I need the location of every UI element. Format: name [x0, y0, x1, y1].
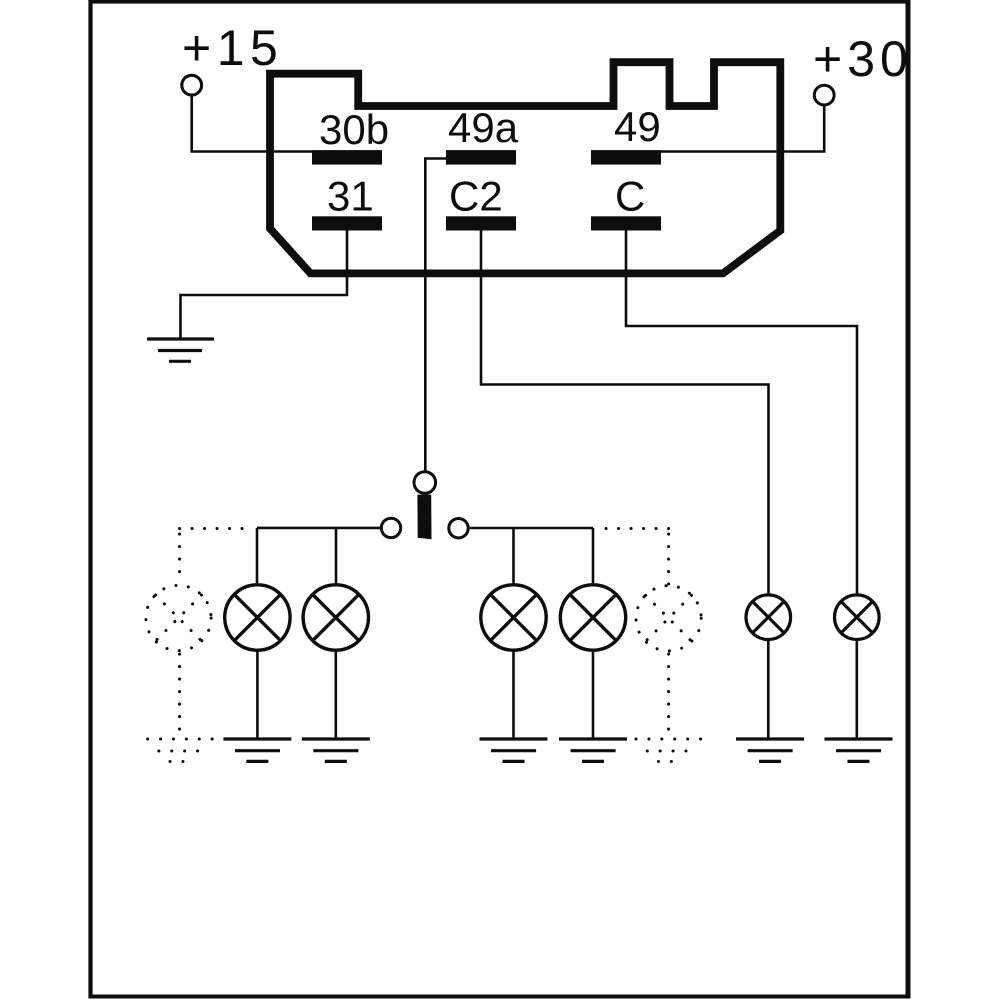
- wire lamp L5 to ground: [767, 640, 770, 739]
- ground symbol under L4: [559, 739, 627, 761]
- lamp L6: [835, 595, 880, 640]
- terminal bar 30b: [312, 150, 382, 165]
- svg-text:+15: +15: [182, 20, 283, 76]
- dotted wire optional middle lamp to ground: [667, 654, 670, 737]
- wire lamp L3 to ground: [512, 652, 515, 739]
- lamp L3: [481, 585, 546, 650]
- dotted wire optional left lamp to ground: [178, 654, 181, 737]
- svg-text:49: 49: [614, 103, 661, 150]
- wire lamp L4 to ground: [592, 652, 595, 739]
- ground symbol under L5: [736, 739, 804, 761]
- relay housing outline: [270, 62, 780, 273]
- lamp L5: [746, 595, 791, 640]
- svg-text:+30: +30: [813, 31, 913, 87]
- ground symbol under L2: [302, 739, 370, 761]
- wire lamp L6 to ground: [855, 640, 858, 739]
- ground symbol under L3: [480, 739, 548, 761]
- dotted ground under optional left lamp: [148, 739, 213, 762]
- switch contact right: [449, 519, 468, 538]
- wire 31 to chassis ground: [181, 231, 348, 338]
- dotted optional lamp left: [146, 585, 211, 650]
- wire down to lamp L4: [592, 528, 595, 584]
- svg-text:C: C: [615, 173, 645, 220]
- wire 49a to switch pivot: [425, 159, 446, 471]
- wire lamp L1 to ground: [256, 652, 259, 739]
- ground symbol 31: [147, 339, 214, 361]
- terminal bar 49a: [446, 150, 516, 165]
- switch contact left: [381, 518, 400, 537]
- switch pivot circle: [414, 472, 436, 494]
- svg-text:C2: C2: [449, 173, 503, 220]
- terminal bar 49: [591, 150, 661, 165]
- wire down to lamp L2: [335, 528, 338, 584]
- wire down to lamp L3: [512, 528, 515, 584]
- terminal circle +15: [182, 75, 202, 95]
- svg-text:49a: 49a: [448, 104, 519, 151]
- terminal circle +30: [814, 85, 834, 105]
- wire lamp L2 to ground: [334, 652, 337, 739]
- dotted optional lamp middle: [636, 586, 701, 651]
- terminal bar 31: [312, 216, 382, 230]
- lamp L2: [303, 585, 368, 650]
- wire down to lamp L1: [256, 528, 259, 584]
- svg-text:30b: 30b: [319, 106, 389, 153]
- lamp L1: [225, 585, 290, 650]
- dotted wire down to optional middle lamp: [667, 534, 670, 584]
- wire +15 to terminal 30b: [192, 95, 313, 152]
- wire C to lamp L6: [626, 231, 857, 596]
- dotted wire to optional left lamp: [180, 527, 252, 530]
- dotted wire down to optional left lamp: [178, 534, 181, 583]
- wire left contact to left lamp group: [257, 527, 380, 530]
- wire right contact to right lamp group: [470, 527, 593, 530]
- switch lever: [417, 495, 431, 540]
- wire C2 to lamp L5: [481, 231, 769, 596]
- wire +30 to terminal 49: [660, 105, 824, 152]
- dotted ground under optional middle lamp: [636, 739, 701, 762]
- terminal bar C2: [446, 216, 516, 230]
- lamp L4: [560, 585, 625, 650]
- ground symbol under L1: [223, 739, 291, 761]
- ground symbol under L6: [825, 739, 893, 761]
- terminal bar C: [591, 216, 661, 230]
- svg-text:31: 31: [327, 173, 374, 220]
- dotted wire to optional middle lamp: [597, 527, 669, 530]
